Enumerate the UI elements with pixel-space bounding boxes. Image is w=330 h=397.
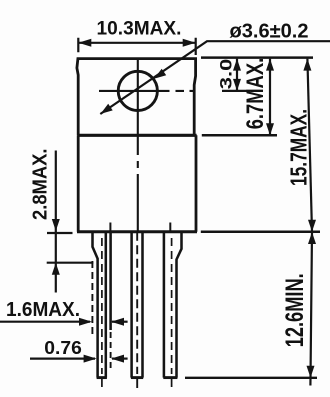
svg-text:2.8MAX.: 2.8MAX. bbox=[30, 149, 52, 221]
arrow 1.6 right pointing left bbox=[111, 318, 124, 326]
15.7 bottom witness extension bbox=[201, 230, 320, 233]
arrow 6.7 top bbox=[266, 59, 274, 71]
svg-text:15.7MAX.: 15.7MAX. bbox=[285, 109, 311, 186]
arrow 3.0 top bbox=[233, 59, 241, 71]
lead 3 (right) bbox=[163, 223, 181, 391]
svg-text:1.6MAX.: 1.6MAX. bbox=[6, 299, 80, 321]
arrow 0.76 left pointing right bbox=[84, 355, 97, 363]
lead 1 centerline bbox=[101, 238, 103, 390]
arrow 10.3 left bbox=[78, 39, 91, 47]
dim 0.76 arrow line left bbox=[30, 358, 95, 360]
lead 3 hidden stub inside body bbox=[169, 223, 171, 232]
lead 2 right edge bbox=[141, 232, 144, 378]
body bottom edge bbox=[77, 230, 197, 233]
svg-text:10.3MAX.: 10.3MAX. bbox=[97, 19, 182, 40]
lead 2 left edge bbox=[130, 232, 133, 378]
dim phi3.6 leader shelf bbox=[100, 41, 330, 114]
lead 1 right envelope (dashed) bbox=[110, 332, 112, 372]
arrowheads bbox=[52, 39, 316, 378]
arrow 6.7 bottom bbox=[266, 123, 274, 135]
2.8 lower witness line bbox=[47, 262, 94, 264]
svg-text:3.0: 3.0 bbox=[216, 59, 235, 90]
mounting hole bbox=[118, 71, 157, 110]
package vertical centerline bbox=[137, 59, 139, 232]
dim 6.7MAX line bbox=[269, 59, 271, 136]
molded body outline bbox=[78, 135, 196, 232]
dim 10.3MAX line bbox=[79, 42, 195, 44]
lead 2 bottom cap bbox=[131, 376, 143, 379]
6.7 bottom witness extension bbox=[202, 134, 277, 137]
arrow leader at hole edge bbox=[154, 69, 166, 79]
lead 3 right wide edge + taper bbox=[177, 232, 182, 378]
arrow 15.7 bottom bbox=[308, 220, 316, 232]
package tab (header) outline bbox=[77, 59, 196, 135]
lead 3 centerline bbox=[171, 238, 173, 390]
arrow 2.8 down bbox=[52, 219, 60, 231]
lead 1 right narrow edge bbox=[105, 232, 108, 378]
arrow 15.7 top bbox=[303, 59, 311, 71]
12.6 bottom witness line bbox=[185, 377, 317, 379]
lead 1 left wide edge + taper bbox=[93, 232, 98, 378]
dim 12.6MIN line bbox=[310, 232, 312, 386]
dim 0.76 arrow tail right bbox=[112, 358, 128, 360]
arrow 12.6 bottom bbox=[307, 366, 315, 378]
svg-text:0.76: 0.76 bbox=[44, 338, 82, 358]
svg-text:6.7MAX.: 6.7MAX. bbox=[242, 58, 269, 130]
arrow leader end bbox=[101, 104, 113, 114]
lead 3 left edge bbox=[163, 232, 166, 378]
lead 1 (left) bbox=[92, 223, 110, 391]
svg-text:12.6MIN.: 12.6MIN. bbox=[281, 273, 309, 347]
dim 1.6MAX arrow line left bbox=[0, 321, 90, 323]
arrow 3.0 bottom bbox=[233, 79, 241, 91]
lead 1 bottom cap bbox=[97, 376, 107, 379]
arrow 2.8 up bbox=[52, 263, 60, 275]
arrow 12.6 top bbox=[308, 232, 316, 244]
tab/body boundary line bbox=[77, 134, 196, 137]
lead 1 hidden stub inside body bbox=[109, 223, 111, 232]
arrow 0.76 right pointing left bbox=[111, 355, 124, 363]
arrow 10.3 right bbox=[183, 39, 196, 47]
top witness line to right edge bbox=[201, 56, 313, 59]
dim 1.6MAX arrow tail right bbox=[112, 321, 128, 323]
lead 2 (middle) bbox=[131, 232, 143, 378]
dim 3.0 line bbox=[236, 59, 238, 91]
lead centerline (middle, continues to bottom) bbox=[136, 232, 138, 390]
lead 1 right wide edge bbox=[109, 232, 112, 330]
lead 3 bottom cap bbox=[163, 376, 177, 379]
dim 2.8MAX upper line bbox=[55, 151, 57, 293]
arrow 1.6 left pointing right bbox=[79, 318, 92, 326]
dim 15.7MAX line bbox=[307, 59, 312, 232]
2.8 witness tick at body bottom bbox=[47, 232, 73, 234]
dim 10.3MAX witness lines bbox=[78, 38, 195, 55]
svg-text:ø3.6±0.2: ø3.6±0.2 bbox=[230, 21, 309, 43]
dim 3.0 bottom witness tick bbox=[222, 90, 247, 92]
lead 1 left envelope (dashed) bbox=[91, 261, 93, 338]
hole horizontal centerline bbox=[99, 90, 196, 92]
